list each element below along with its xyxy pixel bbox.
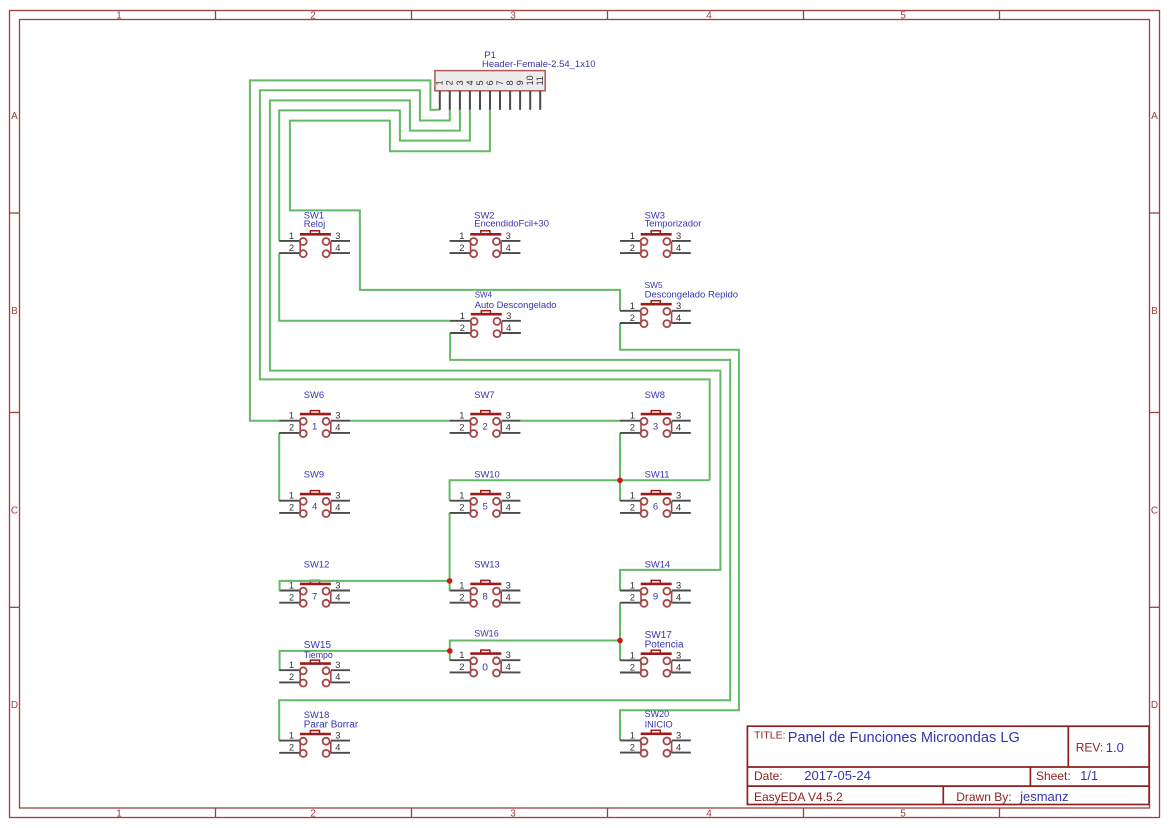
svg-text:SW6: SW6 bbox=[304, 389, 324, 400]
svg-text:SW7: SW7 bbox=[474, 389, 494, 400]
svg-text:11: 11 bbox=[535, 76, 545, 85]
P1 pin 3 bbox=[459, 91, 461, 110]
svg-text:2: 2 bbox=[459, 661, 464, 672]
connector P1 Header-Female-2.54_1x10 bbox=[435, 50, 596, 110]
P1 pin 2 bbox=[449, 91, 451, 110]
svg-text:C: C bbox=[11, 505, 18, 516]
svg-text:C: C bbox=[1151, 505, 1158, 516]
wire SW10 pin 2 to junction B bbox=[449, 513, 451, 581]
junction dot B bbox=[447, 578, 453, 584]
svg-text:2: 2 bbox=[459, 502, 464, 513]
svg-text:D: D bbox=[1151, 700, 1158, 711]
push-button switch SW12 bbox=[279, 559, 350, 607]
svg-text:2: 2 bbox=[289, 592, 294, 603]
svg-text:Date:: Date: bbox=[754, 769, 783, 783]
push-button switch SW3 bbox=[620, 210, 701, 258]
P1 pin 4 bbox=[469, 91, 471, 110]
svg-text:3: 3 bbox=[653, 422, 658, 433]
svg-text:1: 1 bbox=[116, 11, 122, 22]
svg-text:4: 4 bbox=[335, 502, 340, 513]
wire junction D to SW16 pin 1 bbox=[449, 651, 451, 660]
svg-text:1: 1 bbox=[289, 490, 294, 501]
svg-text:1: 1 bbox=[459, 230, 464, 241]
svg-text:1: 1 bbox=[630, 729, 635, 740]
svg-text:4: 4 bbox=[676, 741, 681, 752]
svg-text:1: 1 bbox=[289, 410, 294, 421]
svg-text:1: 1 bbox=[459, 649, 464, 660]
push-button switch SW6 bbox=[279, 389, 350, 437]
svg-text:4: 4 bbox=[335, 592, 340, 603]
svg-text:Temporizador: Temporizador bbox=[645, 218, 702, 229]
svg-text:2: 2 bbox=[630, 502, 635, 513]
svg-text:0: 0 bbox=[482, 662, 488, 673]
svg-text:SW10: SW10 bbox=[474, 469, 500, 480]
wire net HDR6: P1 pin 6 to SW5 pin 1 bbox=[290, 110, 620, 311]
svg-text:B: B bbox=[11, 306, 18, 317]
svg-text:Descongelado Repido: Descongelado Repido bbox=[645, 290, 738, 301]
svg-text:6: 6 bbox=[653, 502, 658, 513]
svg-text:4: 4 bbox=[676, 592, 681, 603]
wire net HDR3: P1 pin 3 to SW14 pin 1 bbox=[270, 100, 721, 590]
svg-text:D: D bbox=[11, 700, 18, 711]
svg-text:SW12: SW12 bbox=[304, 559, 330, 570]
svg-text:1: 1 bbox=[459, 490, 464, 501]
svg-text:2: 2 bbox=[445, 80, 455, 85]
push-button switch SW8 bbox=[620, 389, 691, 437]
wire junction C to junction D bbox=[450, 641, 620, 651]
svg-text:SW13: SW13 bbox=[474, 559, 500, 570]
svg-text:3: 3 bbox=[676, 300, 681, 311]
svg-text:4: 4 bbox=[465, 80, 475, 85]
svg-text:3: 3 bbox=[506, 230, 511, 241]
svg-text:Reloj: Reloj bbox=[304, 218, 325, 229]
svg-text:3: 3 bbox=[676, 230, 681, 241]
svg-text:3: 3 bbox=[506, 490, 511, 501]
P1 pin 11 bbox=[539, 91, 541, 110]
svg-text:3: 3 bbox=[335, 490, 340, 501]
svg-text:4: 4 bbox=[506, 502, 511, 513]
svg-text:4: 4 bbox=[706, 11, 712, 22]
title block bbox=[747, 726, 1149, 804]
svg-text:3: 3 bbox=[676, 490, 681, 501]
wire junction A to SW10 pin 1 bbox=[450, 480, 620, 500]
svg-text:3: 3 bbox=[335, 730, 340, 741]
svg-text:Auto Descongelado: Auto Descongelado bbox=[475, 299, 557, 310]
svg-text:4: 4 bbox=[506, 422, 511, 433]
P1 pin 9 bbox=[519, 91, 521, 110]
P1 pin 8 bbox=[509, 91, 511, 110]
wire SW8 pin 2 to junction A bbox=[619, 433, 621, 480]
svg-text:8: 8 bbox=[505, 80, 515, 85]
svg-text:5: 5 bbox=[900, 809, 906, 820]
svg-text:4: 4 bbox=[335, 242, 340, 253]
svg-text:7: 7 bbox=[312, 591, 317, 602]
push-button switch SW1 bbox=[279, 209, 350, 257]
junction dot A bbox=[617, 478, 623, 484]
svg-text:2: 2 bbox=[310, 809, 316, 820]
push-button switch SW10 bbox=[450, 469, 521, 518]
push-button switch SW18 bbox=[279, 709, 359, 757]
svg-text:2: 2 bbox=[630, 661, 635, 672]
svg-text:A: A bbox=[1151, 111, 1158, 122]
svg-text:1.0: 1.0 bbox=[1106, 740, 1124, 755]
svg-text:1: 1 bbox=[630, 230, 635, 241]
P1 pin 1 bbox=[439, 91, 441, 110]
push-button switch SW14 bbox=[620, 559, 691, 607]
svg-text:4: 4 bbox=[506, 242, 511, 253]
svg-text:2: 2 bbox=[289, 742, 294, 753]
svg-text:2: 2 bbox=[630, 312, 635, 323]
svg-text:3: 3 bbox=[506, 310, 511, 321]
svg-text:2: 2 bbox=[289, 671, 294, 682]
svg-text:1: 1 bbox=[289, 730, 294, 741]
svg-text:2: 2 bbox=[459, 242, 464, 253]
P1 pin 10 bbox=[529, 91, 531, 110]
svg-text:4: 4 bbox=[506, 661, 511, 672]
svg-text:Drawn By:: Drawn By: bbox=[956, 790, 1011, 804]
svg-text:1: 1 bbox=[289, 230, 294, 241]
svg-text:5: 5 bbox=[475, 80, 485, 85]
svg-text:4: 4 bbox=[676, 242, 681, 253]
wire net HDR2: P1 pin 2 to junction A riser bbox=[260, 90, 710, 480]
svg-text:4: 4 bbox=[676, 422, 681, 433]
wire SW6 pin 2 to SW9 pin 1 bbox=[278, 433, 280, 501]
svg-text:4: 4 bbox=[312, 502, 317, 513]
svg-text:EasyEDA V4.5.2: EasyEDA V4.5.2 bbox=[754, 790, 843, 804]
svg-text:SW8: SW8 bbox=[645, 389, 665, 400]
svg-text:B: B bbox=[1151, 306, 1158, 317]
svg-text:1: 1 bbox=[435, 80, 445, 85]
svg-text:3: 3 bbox=[676, 580, 681, 591]
svg-text:4: 4 bbox=[506, 592, 511, 603]
svg-text:2: 2 bbox=[310, 11, 316, 22]
push-button switch SW4 bbox=[450, 291, 556, 337]
title block text bbox=[754, 730, 1103, 804]
svg-text:1: 1 bbox=[116, 809, 122, 820]
svg-text:SW14: SW14 bbox=[645, 559, 671, 570]
svg-text:2: 2 bbox=[630, 242, 635, 253]
svg-text:2: 2 bbox=[289, 502, 294, 513]
svg-text:4: 4 bbox=[676, 661, 681, 672]
svg-text:10: 10 bbox=[525, 75, 535, 85]
wire SW7 pin 3 to SW8 pin 1 bbox=[520, 420, 620, 422]
svg-text:4: 4 bbox=[335, 742, 340, 753]
svg-text:1: 1 bbox=[459, 580, 464, 591]
svg-text:3: 3 bbox=[335, 410, 340, 421]
svg-text:SW11: SW11 bbox=[645, 469, 670, 480]
push-button switch SW20 bbox=[620, 709, 691, 757]
svg-text:7: 7 bbox=[495, 80, 505, 85]
svg-text:SW20: SW20 bbox=[645, 709, 670, 719]
svg-text:SW9: SW9 bbox=[304, 469, 324, 480]
wire net HDR4: P1 pin 4 to SW1 pin 1 bbox=[279, 110, 470, 241]
push-button switch SW2 bbox=[450, 210, 549, 258]
svg-text:4: 4 bbox=[676, 312, 681, 323]
junction dot C bbox=[617, 638, 623, 644]
svg-text:SW18: SW18 bbox=[304, 709, 330, 720]
svg-text:6: 6 bbox=[485, 80, 495, 85]
svg-text:3: 3 bbox=[455, 80, 465, 85]
wire junction B to SW12 pin 1 bbox=[280, 581, 450, 591]
svg-text:4: 4 bbox=[335, 422, 340, 433]
svg-text:4: 4 bbox=[506, 322, 511, 333]
svg-text:Header-Female-2.54_1x10: Header-Female-2.54_1x10 bbox=[482, 59, 596, 70]
svg-text:8: 8 bbox=[482, 591, 487, 602]
svg-text:Parar Borrar: Parar Borrar bbox=[304, 720, 359, 731]
svg-text:2: 2 bbox=[459, 422, 464, 433]
svg-text:1: 1 bbox=[289, 659, 294, 670]
push-button switch SW11 bbox=[620, 469, 691, 518]
wire junction C to SW17 pin 1 bbox=[619, 641, 621, 661]
svg-text:1: 1 bbox=[312, 422, 317, 433]
svg-text:1: 1 bbox=[630, 649, 635, 660]
svg-text:2: 2 bbox=[630, 592, 635, 603]
svg-text:3: 3 bbox=[510, 809, 516, 820]
svg-text:2: 2 bbox=[482, 422, 487, 433]
svg-text:1: 1 bbox=[630, 410, 635, 421]
svg-text:2017-05-24: 2017-05-24 bbox=[804, 768, 871, 783]
svg-text:3: 3 bbox=[506, 410, 511, 421]
svg-text:1/1: 1/1 bbox=[1080, 768, 1098, 783]
svg-text:3: 3 bbox=[676, 410, 681, 421]
push-button switch SW13 bbox=[450, 559, 521, 607]
P1 pin 7 bbox=[499, 91, 501, 110]
wire junction A to SW11 pin 1 bbox=[619, 480, 621, 500]
P1 pin 5 bbox=[479, 91, 481, 110]
svg-text:jesmanz: jesmanz bbox=[1019, 789, 1068, 804]
junction dot D bbox=[447, 648, 453, 654]
svg-text:REV:: REV: bbox=[1076, 741, 1104, 755]
wire SW6 pin 3 to SW7 pin 1 bbox=[350, 420, 450, 422]
wire SW5 pin 2 to SW20 pin 1 bbox=[620, 323, 739, 740]
svg-text:Panel de Funciones Microondas: Panel de Funciones Microondas LG bbox=[788, 730, 1020, 746]
svg-text:4: 4 bbox=[676, 502, 681, 513]
svg-text:INICIO: INICIO bbox=[645, 719, 673, 729]
push-button switch SW17 bbox=[620, 630, 691, 677]
svg-text:2: 2 bbox=[630, 741, 635, 752]
svg-text:3: 3 bbox=[510, 11, 516, 22]
svg-text:3: 3 bbox=[335, 230, 340, 241]
push-button switch SW9 bbox=[279, 469, 350, 518]
svg-text:A: A bbox=[11, 111, 18, 122]
wire junction A to net HDR2 riser bbox=[620, 479, 710, 481]
svg-text:3: 3 bbox=[676, 649, 681, 660]
svg-text:4: 4 bbox=[335, 671, 340, 682]
svg-text:1: 1 bbox=[459, 410, 464, 421]
svg-text:2: 2 bbox=[459, 592, 464, 603]
svg-text:TITLE:: TITLE: bbox=[754, 730, 786, 742]
svg-text:9: 9 bbox=[653, 591, 658, 602]
svg-text:4: 4 bbox=[706, 809, 712, 820]
wire junction D to SW15 pin 1 bbox=[280, 651, 450, 670]
svg-text:3: 3 bbox=[506, 580, 511, 591]
svg-text:9: 9 bbox=[515, 80, 525, 85]
svg-text:3: 3 bbox=[506, 649, 511, 660]
svg-text:2: 2 bbox=[289, 242, 294, 253]
push-button switch SW15 bbox=[279, 640, 350, 687]
svg-text:5: 5 bbox=[900, 11, 906, 22]
push-button switch SW16 bbox=[450, 629, 521, 677]
wire SW14 pin 2 to junction C bbox=[619, 603, 621, 641]
svg-text:2: 2 bbox=[630, 422, 635, 433]
push-button switch SW7 bbox=[450, 389, 521, 437]
wire net HDR1: P1 pin 1 to SW6 pin 1 bbox=[250, 80, 440, 420]
svg-text:2: 2 bbox=[460, 322, 465, 333]
svg-text:2: 2 bbox=[289, 422, 294, 433]
svg-text:EncendidoFcil+30: EncendidoFcil+30 bbox=[474, 218, 549, 229]
P1 pin 6 bbox=[489, 91, 491, 110]
svg-text:Tiempo: Tiempo bbox=[304, 650, 333, 660]
wire junction B to SW13 pin 1 bbox=[449, 581, 451, 591]
wire SW1 pin 2 to SW4 pin 1 bbox=[279, 253, 450, 321]
wire SW4 pin 2 to SW18 pin 1 bbox=[279, 333, 730, 741]
svg-text:Sheet:: Sheet: bbox=[1036, 769, 1071, 783]
svg-text:5: 5 bbox=[482, 502, 487, 513]
push-button switch SW5 bbox=[620, 280, 738, 327]
svg-text:3: 3 bbox=[335, 659, 340, 670]
svg-text:1: 1 bbox=[630, 580, 635, 591]
svg-text:1: 1 bbox=[630, 300, 635, 311]
svg-text:SW16: SW16 bbox=[474, 629, 499, 639]
svg-text:3: 3 bbox=[676, 729, 681, 740]
svg-text:1: 1 bbox=[460, 310, 465, 321]
svg-text:1: 1 bbox=[630, 490, 635, 501]
